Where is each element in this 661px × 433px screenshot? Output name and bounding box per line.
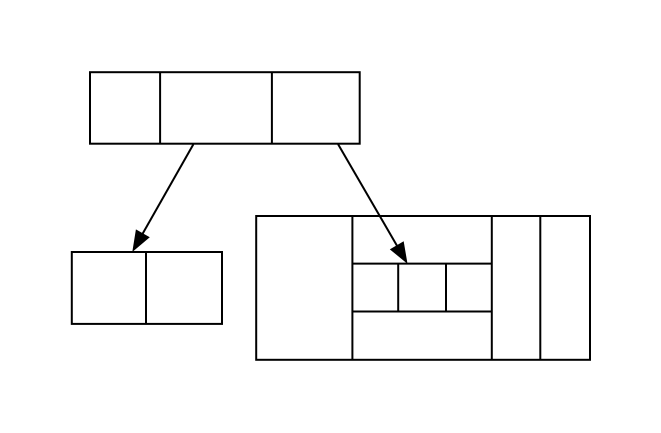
struct1 divider f0|f1 [159, 72, 161, 144]
struct1 divider f1|f2 [271, 72, 273, 144]
struct3 divider g | h [539, 216, 541, 360]
node struct2 outer box [72, 252, 222, 324]
edge struct1:f1 -> struct2:f0 arrowhead [133, 230, 149, 251]
node struct3 outer box [256, 216, 590, 360]
struct3 divider middle group | g [491, 216, 493, 360]
struct3 middle group horizontal divider cde row | f [352, 311, 491, 313]
edge struct1:f2 -> struct3:here shaft [338, 144, 397, 246]
struct2 divider f0|f1 [145, 252, 147, 324]
edge struct1:f1 -> struct2:f0 shaft [143, 144, 194, 234]
struct3 middle group horizontal divider b | cde row [352, 263, 491, 265]
struct3 divider hello-world | middle group [351, 216, 353, 360]
struct3 small cell divider d|e [445, 264, 447, 312]
edge struct1:f2 -> struct3:here arrowhead [391, 242, 407, 263]
struct3 small cell divider c|d [397, 264, 399, 312]
node struct1 outer box [90, 72, 360, 144]
